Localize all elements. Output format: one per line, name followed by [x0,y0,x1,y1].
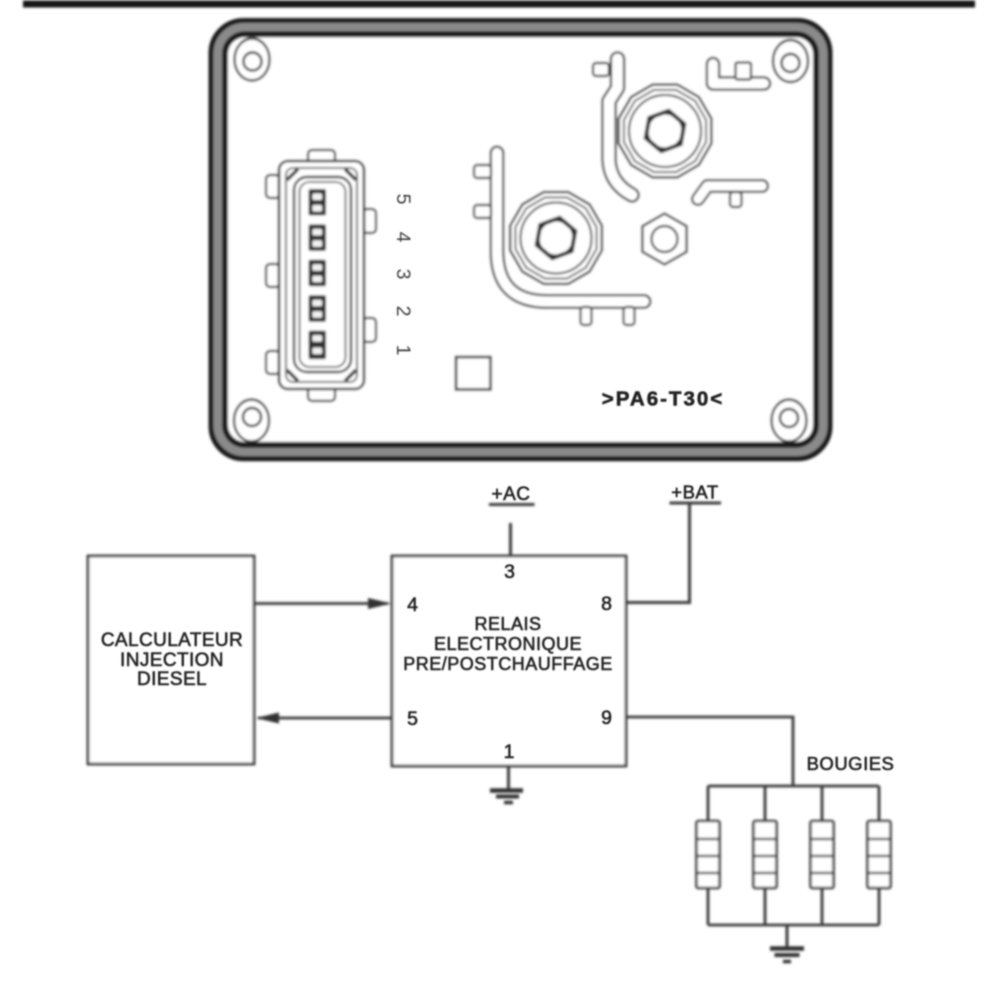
svg-text:BOUGIES: BOUGIES [807,753,895,774]
bracket around upper terminal stud [593,59,632,195]
svg-text:2: 2 [392,306,414,317]
svg-text:INJECTION: INJECTION [120,650,224,671]
wire pin 9 to glow plugs [626,717,793,786]
svg-text:DIESEL: DIESEL [137,669,207,690]
mounting tab top-right [773,40,808,82]
box calculateur injection diesel [88,556,254,764]
wire +AC to pin 3 [509,523,512,556]
upper terminal stud [619,85,712,178]
svg-text:1: 1 [392,345,414,356]
small square marking [456,357,491,390]
glow plug R4 [868,786,891,925]
mounting tab top-left [235,39,270,81]
glow plug bottom bus [708,924,879,927]
net +BAT underline [670,502,722,505]
glow plug R2 [754,786,777,925]
wire calculateur to pin 4 [254,598,391,609]
lower terminal stud [510,192,602,284]
mounting tab bottom-left [234,400,269,442]
svg-text:3: 3 [504,561,515,583]
bracket top-right F-shaped [713,63,764,84]
svg-text:3: 3 [392,269,414,280]
wire pin 5 to calculateur [256,713,392,724]
ground below glow plugs [770,925,804,962]
relay housing outer case [212,21,830,458]
bracket right T-shaped [698,186,762,207]
connector pin slot 5 [309,331,327,360]
header bar [23,1,975,8]
svg-text:1: 1 [504,741,515,763]
svg-text:PRE/POSTCHAUFFAGE: PRE/POSTCHAUFFAGE [403,654,613,674]
svg-text:4: 4 [392,232,414,243]
glow plug R1 [697,786,720,925]
svg-text:+AC: +AC [492,484,531,505]
svg-text:RELAIS: RELAIS [474,614,541,634]
connector pin slot 2 [309,224,327,251]
svg-text:5: 5 [407,708,418,730]
svg-text:ELECTRONIQUE: ELECTRONIQUE [434,634,582,654]
mounting tab bottom-right [772,400,807,442]
svg-text:5: 5 [392,194,414,205]
ground below relay pin 1 [490,766,523,803]
svg-text:CALCULATEUR: CALCULATEUR [101,630,243,651]
net +AC underline [489,503,535,506]
glow plug R3 [811,786,834,925]
glow plug top bus [708,785,879,788]
svg-text:9: 9 [601,707,612,729]
svg-text:>PA6-T30<: >PA6-T30< [602,388,724,411]
svg-text:8: 8 [601,593,612,615]
wire +BAT to pin 8 [626,503,690,603]
box relais electronique [392,556,626,766]
svg-text:4: 4 [407,594,418,616]
small hex nut [642,214,686,265]
connector pin slot 4 [309,295,327,322]
connector pin slot 3 [309,260,327,287]
connector pin slot 1 [309,189,327,216]
bracket around lower terminal stud [474,153,644,325]
svg-text:+BAT: +BAT [671,482,718,503]
connector J1 body [266,150,376,401]
